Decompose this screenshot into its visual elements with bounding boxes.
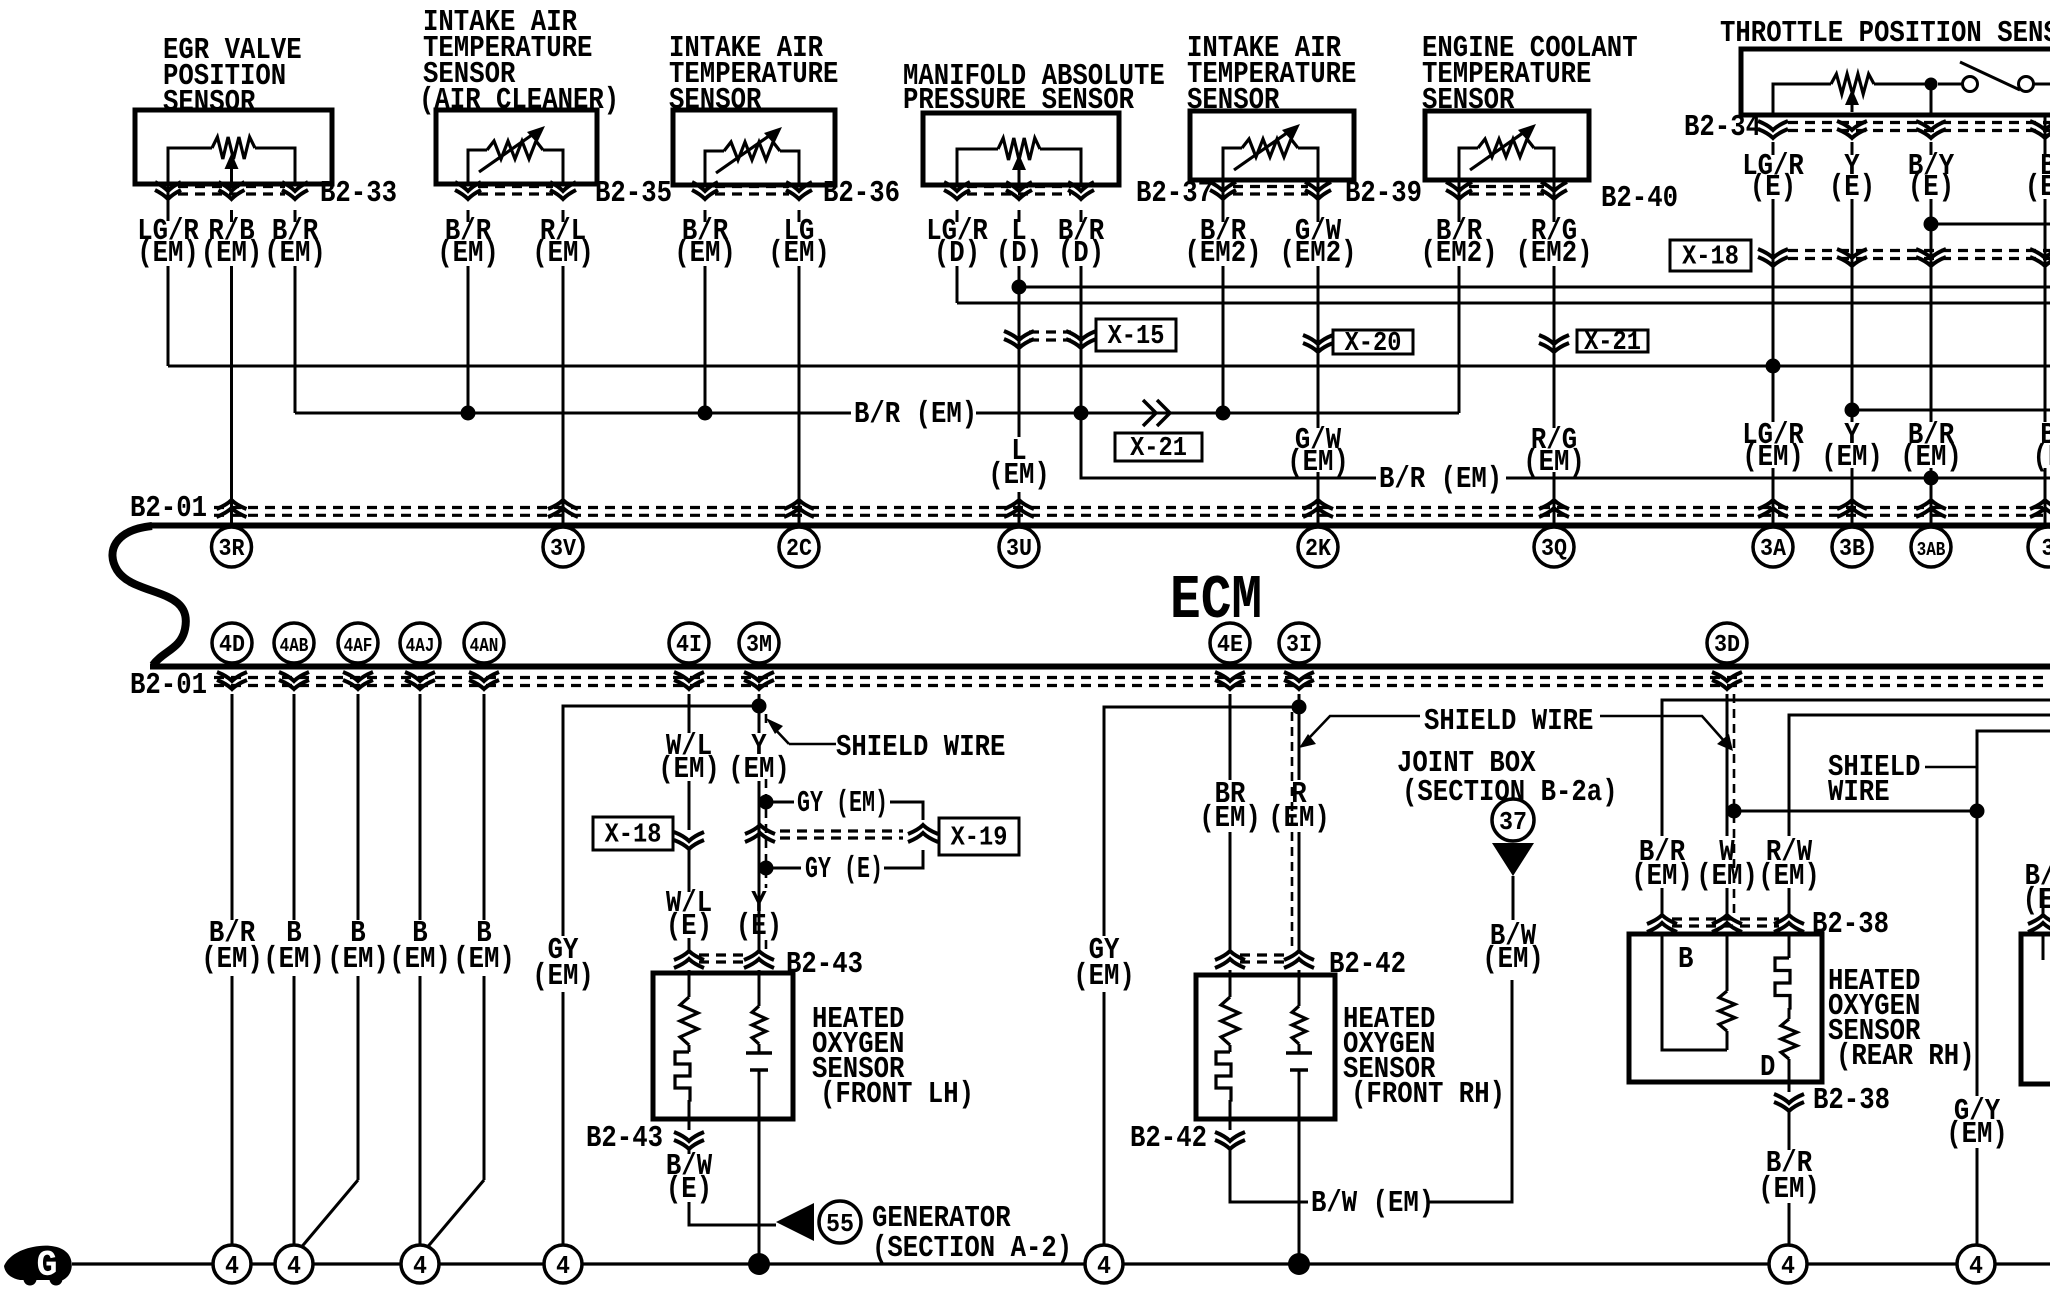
node front LH sense to ground bus xyxy=(748,1253,770,1275)
wire GY (EM) stub xyxy=(766,802,923,820)
svg-text:55: 55 xyxy=(826,1209,854,1239)
joint box terminal 37 xyxy=(1492,799,1534,841)
ECM pin 3A xyxy=(1753,527,1793,567)
svg-text:(E): (E) xyxy=(666,1172,712,1207)
wire Y (EM) 3M xyxy=(758,694,761,733)
svg-text:(EM): (EM) xyxy=(1287,445,1349,480)
wire EGR LG/R vertical xyxy=(167,184,170,221)
svg-text:(EM): (EM) xyxy=(453,942,515,977)
svg-text:(EM): (EM) xyxy=(264,236,326,271)
node GY tap on 3I wire xyxy=(1292,700,1307,715)
svg-text:B/W (EM): B/W (EM) xyxy=(1311,1186,1434,1221)
wire BR (EM) 4E xyxy=(1229,694,1232,780)
svg-text:4: 4 xyxy=(287,1251,301,1281)
svg-text:X-20: X-20 xyxy=(1345,329,1402,359)
ground terminal 4 - GY 4E xyxy=(1085,1245,1123,1283)
wire GY (EM) 4E branch xyxy=(1104,707,1299,936)
ECT thermistor xyxy=(1459,148,1554,182)
wire MAP L vertical to pin 3U xyxy=(1018,210,1021,222)
ECM lower boundary line xyxy=(150,664,2050,670)
wire B (EM) ground 4AJ xyxy=(419,694,422,920)
ECM pin partial right xyxy=(2028,527,2050,567)
svg-text:2K: 2K xyxy=(1305,536,1332,563)
ECM pin 3Q xyxy=(1534,527,1574,567)
svg-text:SHIELD WIRE: SHIELD WIRE xyxy=(836,730,1005,765)
svg-text:SHIELD WIRE: SHIELD WIRE xyxy=(1424,704,1593,739)
svg-text:(EM): (EM) xyxy=(1268,801,1330,836)
svg-text:4: 4 xyxy=(556,1251,570,1281)
wire B/W (EM) joint box xyxy=(1512,876,1515,920)
svg-text:(EM): (EM) xyxy=(1482,942,1544,977)
svg-text:4: 4 xyxy=(1781,1251,1795,1281)
wire GY (E) stub xyxy=(766,850,923,868)
ECM pin 3AB xyxy=(1911,527,1951,567)
node shield link corner xyxy=(1970,804,1985,819)
svg-text:(EM): (EM) xyxy=(1946,1117,2008,1152)
wire TPS B/Y vertical to pin 3AB xyxy=(1930,142,1933,155)
connector B2-40 xyxy=(1446,182,1472,199)
wire IAT LG vertical to pin 2C xyxy=(798,210,801,222)
svg-text:4: 4 xyxy=(1097,1251,1111,1281)
svg-text:(EM): (EM) xyxy=(1199,801,1261,836)
svg-text:(EM): (EM) xyxy=(1742,440,1804,475)
wire LG/R (D) branch to right edge xyxy=(957,302,2050,305)
HO2S rear RH heater branch xyxy=(1788,932,1791,958)
wire MAP LG/R vertical xyxy=(956,210,959,222)
wire B (EM) ground 4AN xyxy=(483,694,486,920)
HO2S front LH heater branch xyxy=(688,970,691,997)
IAT thermistor xyxy=(705,151,799,187)
svg-text:B/R (EM): B/R (EM) xyxy=(1379,462,1502,497)
node GY tap on 3M wire xyxy=(752,699,767,714)
ECM top boundary line xyxy=(150,523,2050,529)
connector B2-43 bottom xyxy=(674,1132,704,1149)
svg-text:(EM): (EM) xyxy=(389,942,451,977)
svg-text:4: 4 xyxy=(413,1251,427,1281)
lower bus B2-01 dashed harness lines xyxy=(214,678,2050,686)
node GY (EM) tap on shield xyxy=(759,795,774,810)
svg-text:3R: 3R xyxy=(219,536,246,563)
ECM pin 3D xyxy=(1707,623,1747,663)
svg-text:(EM): (EM) xyxy=(768,236,830,271)
svg-text:(EM): (EM) xyxy=(728,752,790,787)
svg-text:(REAR RH): (REAR RH) xyxy=(1836,1039,1975,1074)
svg-text:2C: 2C xyxy=(786,536,812,563)
connector X-18 lower xyxy=(674,832,704,849)
svg-text:(E: (E xyxy=(2023,883,2050,918)
wire LG/R (D) corner xyxy=(956,299,959,303)
svg-text:X-18: X-18 xyxy=(605,821,662,851)
ground symbol G xyxy=(4,1246,72,1280)
connector B2-38 top xyxy=(1647,915,1677,932)
wire TPS LG/R vertical to pin 3A xyxy=(1772,142,1775,155)
intake air temperature sensor 2 box xyxy=(1190,111,1354,180)
svg-text:WIRE: WIRE xyxy=(1828,775,1890,810)
svg-text:B2-43: B2-43 xyxy=(786,947,863,982)
ECM pin 4AN xyxy=(464,623,504,663)
svg-text:(EM2): (EM2) xyxy=(1280,236,1357,271)
wire G/Y (EM) xyxy=(1976,811,1979,1096)
connector X-20 xyxy=(1303,335,1333,352)
node L junction xyxy=(1012,280,1027,295)
svg-text:(D): (D) xyxy=(996,236,1042,271)
HO2S front RH sense element xyxy=(1298,970,1301,1006)
connector B2-42 bottom xyxy=(1215,1132,1245,1149)
wire B/Y branch to right edge xyxy=(1931,223,2050,226)
connector B2-43 top xyxy=(674,951,704,968)
connector B2-37 xyxy=(944,182,970,199)
wire B (EM) ground 4AB xyxy=(293,694,296,920)
shield wire dashed 3M xyxy=(765,714,768,950)
connector X-19 xyxy=(745,825,775,842)
IAT2 thermistor xyxy=(1223,148,1318,182)
svg-text:(EM): (EM) xyxy=(201,942,263,977)
connector X-18 top xyxy=(1758,249,1788,266)
engine coolant temperature sensor box xyxy=(1425,111,1589,180)
svg-text:SENSOR: SENSOR xyxy=(163,85,256,120)
ECM left brace curve xyxy=(112,526,185,665)
svg-text:4E: 4E xyxy=(1217,632,1243,659)
HO2S front LH sense element xyxy=(758,970,761,1006)
svg-text:3A: 3A xyxy=(1760,536,1787,563)
svg-text:B2-42: B2-42 xyxy=(1329,947,1406,982)
shield wire dashed 3D xyxy=(1733,694,1736,913)
svg-text:B2-40: B2-40 xyxy=(1601,181,1678,216)
svg-text:B2-39: B2-39 xyxy=(1345,176,1422,211)
svg-text:(D): (D) xyxy=(934,236,980,271)
ground terminal 4 - 4AB/4AF xyxy=(275,1245,313,1283)
svg-text:B2-01: B2-01 xyxy=(130,491,207,526)
shield wire dashed 3I xyxy=(1291,712,1294,950)
svg-text:X-21: X-21 xyxy=(1130,434,1187,464)
svg-text:GY (E): GY (E) xyxy=(805,852,883,887)
svg-text:X-21: X-21 xyxy=(1584,328,1641,358)
shield wire callout 3M xyxy=(772,726,836,744)
node GY (E) tap on shield xyxy=(759,861,774,876)
wire R/W (EM) rear RH branch xyxy=(1789,715,2050,836)
svg-text:B2-33: B2-33 xyxy=(320,176,397,211)
EGR wiper arrow xyxy=(230,165,233,183)
wire MAP B/R vertical xyxy=(1080,210,1083,222)
ECM pin 2K xyxy=(1298,527,1338,567)
svg-text:ECM: ECM xyxy=(1170,565,1262,636)
svg-text:(EM): (EM) xyxy=(1821,440,1883,475)
wire W/L (E) xyxy=(688,849,691,892)
svg-text:B2-34: B2-34 xyxy=(1684,110,1761,145)
svg-text:4AJ: 4AJ xyxy=(406,635,435,657)
top bus B2-01 dashed harness lines xyxy=(214,508,2050,516)
svg-text:(EM): (EM) xyxy=(988,458,1050,493)
wire R (EM) 3I xyxy=(1298,694,1301,780)
ECM pin 2C xyxy=(779,527,819,567)
svg-text:3: 3 xyxy=(2042,536,2050,563)
EGR valve position sensor box xyxy=(135,110,332,184)
node B/R junction MAP xyxy=(1074,406,1089,421)
svg-text:(EM): (EM) xyxy=(263,942,325,977)
throttle position sensor box xyxy=(1741,49,2050,115)
ground terminal 4 - G/Y xyxy=(1957,1245,1995,1283)
svg-text:3M: 3M xyxy=(746,632,772,659)
shield wire callout 3I xyxy=(1310,716,1420,737)
wire B/R (EM) lower horizontal run xyxy=(1081,413,2050,478)
svg-text:B: B xyxy=(1678,942,1693,977)
svg-text:4AF: 4AF xyxy=(344,635,373,657)
svg-text:D: D xyxy=(1760,1050,1775,1085)
heated oxygen sensor front RH box xyxy=(1196,975,1335,1119)
ECM pin 4AJ xyxy=(400,623,440,663)
connector B2-38 bottom xyxy=(1774,1094,1804,1111)
connector X-21 inline marker xyxy=(1143,400,1170,426)
ECM pin 4AF xyxy=(338,623,378,663)
svg-text:(EM2): (EM2) xyxy=(1421,236,1498,271)
wire W/L (EM) 4I xyxy=(688,694,691,733)
connector B2-33 xyxy=(155,182,181,199)
svg-text:(EM): (EM) xyxy=(1523,445,1585,480)
svg-text:(E: (E xyxy=(2033,440,2050,475)
wire W (EM) 3D xyxy=(1726,694,1729,836)
TPS idle switch xyxy=(1925,78,1938,91)
svg-text:(EM): (EM) xyxy=(137,236,199,271)
wire B/R (EM) horizontal bus xyxy=(295,412,1459,415)
node LG/R junction at TPS xyxy=(1766,359,1781,374)
TPS potentiometer R and wiring xyxy=(1773,84,2050,117)
svg-text:(EM): (EM) xyxy=(532,236,594,271)
svg-text:THROTTLE POSITION SENSOR: THROTTLE POSITION SENSOR xyxy=(1720,16,2050,51)
TPS wiper arrow xyxy=(1851,101,1854,112)
wire ECT B/R vertical xyxy=(1458,182,1461,222)
svg-text:B2-42: B2-42 xyxy=(1130,1121,1207,1156)
connector B2-39 xyxy=(1210,182,1236,199)
wire B/R (EM) ground 4D xyxy=(231,694,234,920)
svg-text:(EM): (EM) xyxy=(1900,440,1962,475)
wire shield link to G/Y xyxy=(1734,731,2050,811)
svg-text:37: 37 xyxy=(1499,807,1527,837)
heated oxygen sensor rear LH partial box xyxy=(2021,934,2050,1084)
MAP wiper arrow xyxy=(1018,166,1021,184)
ECM pin 3I xyxy=(1279,623,1319,663)
ECM pin 3U xyxy=(999,527,1039,567)
svg-text:(EM2): (EM2) xyxy=(1516,236,1593,271)
svg-text:4I: 4I xyxy=(676,632,702,659)
ECM pin 3M xyxy=(739,623,779,663)
connector X-21 on R/G xyxy=(1539,335,1569,352)
svg-text:(SECTION A-2): (SECTION A-2) xyxy=(872,1231,1072,1266)
ECM pin 3B xyxy=(1832,527,1872,567)
svg-text:4: 4 xyxy=(1969,1251,1983,1281)
ECM pin 4I xyxy=(669,623,709,663)
svg-text:3AB: 3AB xyxy=(1917,539,1946,561)
connector B2-35 xyxy=(455,182,481,199)
wire GY (EM) ground xyxy=(563,706,759,936)
wire L (D) branch to right edge xyxy=(1019,286,2050,289)
wire B (EM) ground 4AF xyxy=(357,694,360,920)
EGR potentiometer R xyxy=(168,148,295,186)
svg-text:4: 4 xyxy=(225,1251,239,1281)
wire TPS Y vertical to pin 3B xyxy=(1851,142,1854,155)
lower bus connector chevrons B2-01 xyxy=(217,672,247,689)
svg-text:SENSOR: SENSOR xyxy=(669,83,762,118)
connector B2-36 xyxy=(692,182,718,199)
wire TPS B vertical partial xyxy=(2044,115,2047,155)
wire LG/R (EM) horizontal run xyxy=(168,365,2050,368)
svg-text:(EM): (EM) xyxy=(437,236,499,271)
manifold absolute pressure sensor box xyxy=(923,113,1119,185)
node shield junction 3D xyxy=(1727,804,1742,819)
svg-text:B2-01: B2-01 xyxy=(130,668,207,703)
svg-text:(FRONT LH): (FRONT LH) xyxy=(820,1077,974,1112)
svg-text:(D): (D) xyxy=(1058,236,1104,271)
svg-text:3B: 3B xyxy=(1839,536,1865,563)
HO2S front RH heater branch xyxy=(1229,970,1232,997)
HO2S rear RH pin B wire xyxy=(1662,932,1727,1050)
ground terminal 4 - B/R xyxy=(213,1245,251,1283)
svg-text:3D: 3D xyxy=(1714,632,1740,659)
wire EGR R/B vertical to pin 3R xyxy=(230,210,233,222)
ECM pin 4D xyxy=(212,623,252,663)
svg-text:X-15: X-15 xyxy=(1108,322,1165,352)
heated oxygen sensor front LH box xyxy=(653,973,793,1119)
ground terminal 4 - rear RH B/R xyxy=(1769,1245,1807,1283)
svg-text:B2-38: B2-38 xyxy=(1813,1083,1890,1118)
wire B/W (EM) from BR branch xyxy=(1230,980,1512,1202)
HO2S rear RH sense element xyxy=(1726,932,1729,991)
svg-text:(EM): (EM) xyxy=(532,959,594,994)
generator arrow 55 xyxy=(776,1203,814,1241)
node front RH sense to ground bus xyxy=(1288,1253,1310,1275)
svg-text:GY (EM): GY (EM) xyxy=(797,786,888,821)
svg-text:X-19: X-19 xyxy=(951,824,1008,854)
node B/R junction air cleaner xyxy=(461,406,476,421)
node B/Y junction xyxy=(1924,217,1939,232)
svg-text:B/R (EM): B/R (EM) xyxy=(854,397,977,432)
MAP sensor element R xyxy=(957,149,1081,187)
ground bus wire xyxy=(72,1262,2050,1265)
wire Y (EM) branch to right edge xyxy=(1852,409,2050,412)
wire IAT2 B/R vertical xyxy=(1222,182,1225,222)
wire from TPS pin B/Y xyxy=(1930,90,1933,117)
ground terminal 4 - GY xyxy=(544,1245,582,1283)
air cleaner IAT thermistor xyxy=(468,150,563,186)
wire IAT2 G/W vertical to pin 2K xyxy=(1317,182,1320,222)
top bus connector chevrons B2-01 xyxy=(217,500,247,517)
svg-text:4AN: 4AN xyxy=(470,635,499,657)
svg-text:3U: 3U xyxy=(1006,536,1032,563)
ECM pin 4AB xyxy=(274,623,314,663)
svg-text:(EM): (EM) xyxy=(327,942,389,977)
svg-text:B2-36: B2-36 xyxy=(823,176,900,211)
wire ECT R/G vertical to pin 3Q xyxy=(1553,182,1556,222)
svg-text:(EM2): (EM2) xyxy=(1185,236,1262,271)
svg-text:(EM): (EM) xyxy=(658,752,720,787)
svg-text:(EM): (EM) xyxy=(1758,1172,1820,1207)
svg-text:(EM): (EM) xyxy=(674,236,736,271)
svg-text:(FRONT RH): (FRONT RH) xyxy=(1351,1077,1505,1112)
heated oxygen sensor rear RH box xyxy=(1629,934,1822,1082)
node B/R junction IAT2 xyxy=(1216,406,1231,421)
svg-text:G: G xyxy=(37,1245,58,1286)
svg-text:(EM): (EM) xyxy=(201,236,263,271)
ground terminal 4 - 4AJ/4AN xyxy=(401,1245,439,1283)
svg-text:B2-43: B2-43 xyxy=(586,1121,663,1156)
wire EGR B/R vertical xyxy=(294,210,297,222)
wire air cleaner R/L vertical to pin 3V xyxy=(562,210,565,222)
node Y junction xyxy=(1845,403,1860,418)
svg-text:3V: 3V xyxy=(550,536,577,563)
intake air temperature sensor (air cleaner) box xyxy=(436,110,597,184)
node B/R junction IAT xyxy=(698,406,713,421)
ECM pin 3R xyxy=(212,527,252,567)
wire IAT B/R vertical xyxy=(704,210,707,222)
ECM pin 4E xyxy=(1210,623,1250,663)
svg-text:3Q: 3Q xyxy=(1541,536,1567,563)
ECM pin 3V xyxy=(543,527,583,567)
wire air cleaner B/R vertical xyxy=(467,210,470,222)
node B/R junction TPS xyxy=(1924,471,1939,486)
connector B2-34 xyxy=(1758,121,1788,138)
connector X-15 xyxy=(1004,331,1034,348)
intake air temperature sensor box xyxy=(673,110,835,185)
svg-text:X-18: X-18 xyxy=(1682,243,1739,273)
wire B/R (EM) rear RH branch xyxy=(1662,700,2050,836)
svg-text:4D: 4D xyxy=(219,632,245,659)
svg-text:(AIR CLEANER): (AIR CLEANER) xyxy=(419,83,619,118)
svg-text:B2-35: B2-35 xyxy=(595,176,672,211)
svg-text:4AB: 4AB xyxy=(280,635,309,657)
shield wire callout rear xyxy=(1600,716,1725,742)
connector B2-42 top xyxy=(1215,951,1245,968)
svg-text:(EM): (EM) xyxy=(1073,959,1135,994)
svg-text:3I: 3I xyxy=(1286,632,1312,659)
